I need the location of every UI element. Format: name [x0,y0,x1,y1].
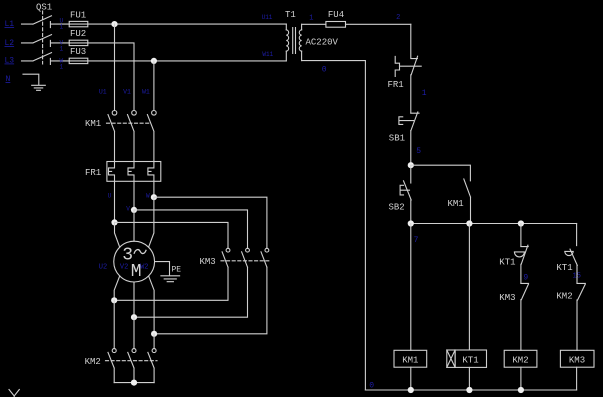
node rail 3 [518,220,524,226]
svg-text:1: 1 [60,63,64,70]
svg-text:1: 1 [309,15,313,23]
wire branch rail [411,223,577,225]
svg-text:W11: W11 [262,51,273,58]
svg-text:W2: W2 [140,263,148,271]
wire branch 3 top [520,224,522,247]
svg-text:KT1: KT1 [462,356,478,366]
svg-text:9: 9 [523,274,528,283]
svg-text:KM3: KM3 [499,293,515,303]
svg-text:KM3: KM3 [200,257,216,267]
wire branch 4 top [576,224,578,246]
thermal contact FR1 (NC) [388,56,422,113]
pushbutton SB1 (NC stop) [389,112,419,165]
svg-text:KM3: KM3 [569,356,585,366]
svg-text:L3: L3 [5,57,15,66]
svg-text:KM1: KM1 [85,119,101,129]
svg-text:1: 1 [60,23,64,30]
node row3 wire number [60,57,64,70]
coil KM3 [560,350,594,367]
contactor KM1 aux contact (NO) [448,179,471,224]
svg-text:2: 2 [396,14,400,22]
fuse FU1 [69,11,88,27]
wire branch KT1 coil [468,224,470,391]
svg-text:7: 7 [414,236,419,245]
switch QS1 [22,3,70,65]
wire secondary bottom to 0 rail [302,61,366,390]
wire below KM2 coil [520,367,522,390]
svg-text:0: 0 [369,382,374,391]
svg-text:PE: PE [172,266,182,275]
node bottom A [111,297,117,303]
svg-text:KM2: KM2 [85,357,101,367]
svg-text:U2: U2 [99,263,107,271]
node row2 wire number [60,39,64,52]
node rail 1 [408,220,414,226]
wire self-hold branch [411,165,471,181]
svg-text:KM2: KM2 [512,356,528,366]
transformer T1 [285,10,302,61]
wire delta loop outer [154,197,267,334]
coil KM1 [394,350,427,367]
svg-text:AC220V: AC220V [306,37,339,47]
node W11 junction [151,58,157,64]
svg-text:L1: L1 [5,20,15,29]
wire delta loop middle [134,210,248,317]
contact KT1 delayed NC [499,245,528,267]
svg-text:KM1: KM1 [448,199,464,209]
contact KM3 NC interlock [499,283,528,350]
node rail KT1 [466,387,472,393]
wire bottom rail 0 [365,389,576,391]
node tee A [111,219,117,225]
contact KT1 delayed NO [556,249,577,273]
svg-text:T1: T1 [285,10,296,20]
svg-text:U11: U11 [262,14,273,21]
Y mark bottom left [9,390,19,397]
wire between [520,264,522,283]
node rail KM2 [518,387,524,393]
node junction SB1/SB2 [408,162,414,168]
node bottom B [131,314,137,320]
svg-text:5: 5 [416,147,421,156]
svg-text:FR1: FR1 [85,168,101,178]
node tee C [151,194,157,200]
svg-text:U: U [108,193,112,200]
contactor KM3 contacts [200,248,271,267]
svg-text:FU4: FU4 [328,10,344,20]
node row1 wire number [60,17,64,30]
coil KT1 (time relay) [447,350,487,367]
node rail KM1 [408,387,414,393]
svg-text:SB2: SB2 [389,203,405,213]
wire phase A drop [114,24,116,110]
contactor KM2 contacts [85,300,157,382]
svg-text:N: N [6,75,11,84]
svg-text:SB1: SB1 [389,133,405,143]
svg-text:FR1: FR1 [388,80,404,90]
svg-text:U1: U1 [99,88,107,95]
wire below KM3 coil [576,367,578,390]
wire control rail down [410,24,412,58]
svg-text:W: W [146,193,150,200]
wire delta loop inner [114,222,228,300]
node rail 2 [466,220,472,226]
svg-text:L2: L2 [5,39,15,48]
fuse FU2 [69,29,88,45]
node tee B [131,207,137,213]
svg-text:V2: V2 [120,263,128,271]
coil KM2 [504,350,537,367]
svg-text:QS1: QS1 [36,3,52,13]
svg-text:KM2: KM2 [556,292,572,302]
svg-text:V1: V1 [123,88,131,95]
node U11 junction [111,21,117,27]
svg-text:1: 1 [422,89,427,98]
svg-text:1: 1 [60,45,64,52]
thermal relay FR1 heater box [85,162,161,223]
ground PE (left) [23,74,45,90]
wire L1 row to transformer [88,23,286,25]
contactor KM1 main contacts [85,111,156,162]
svg-text:KT1: KT1 [556,263,572,273]
fuse FU3 [69,47,88,63]
wire L2 row [88,43,134,111]
node bottom C [151,331,157,337]
ground PE (motor) [155,262,182,282]
svg-text:FU3: FU3 [70,47,86,57]
svg-text:W1: W1 [142,88,150,95]
svg-text:KT1: KT1 [499,257,515,267]
svg-text:KM1: KM1 [402,356,418,366]
motor M 3~ [114,197,155,334]
wire branch KM1 coil [410,224,412,391]
contact KM2 NC interlock [556,283,585,350]
svg-text:FU2: FU2 [70,29,86,39]
svg-text:0: 0 [322,65,327,74]
node star point [131,380,137,386]
fuse FU4 [302,10,411,27]
svg-text:V: V [126,205,130,212]
wire phase C drop [153,61,155,111]
wire between [576,265,578,283]
pushbutton SB2 (NO start) [389,165,412,223]
wire L3 row to transformer [88,60,286,62]
svg-text:FU1: FU1 [70,11,86,21]
